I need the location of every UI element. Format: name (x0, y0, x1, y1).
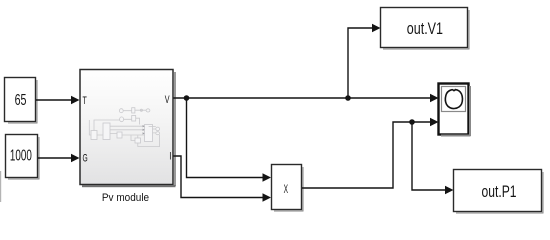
scope block (439, 84, 472, 137)
junction node on V wire (184, 95, 190, 101)
svg-text:Pv module: Pv module (102, 192, 149, 204)
product block x (272, 165, 304, 212)
outport block out.V1 (381, 8, 470, 50)
svg-text:I: I (169, 151, 171, 163)
svg-text:T: T (83, 95, 87, 107)
constant block 65 (5, 78, 38, 124)
svg-text:G: G (83, 153, 88, 165)
svg-text:V: V (165, 94, 170, 106)
constant block 1000 (6, 135, 40, 180)
subsystem Pv module (80, 70, 176, 188)
wire V to scope input 1 (174, 94, 439, 102)
outport block out.P1 (454, 170, 544, 214)
wire branch up to out.V1 (348, 24, 381, 98)
svg-text:out.P1: out.P1 (482, 182, 517, 201)
wire 65 to T (36, 96, 80, 104)
wire branch down to out.P1 (412, 122, 454, 194)
wire product output to scope input 2 (302, 118, 439, 188)
wire 1000 to G (38, 154, 80, 162)
junction node to out.V1 (345, 95, 351, 101)
wire V branch down to product input 1 (187, 98, 272, 182)
thumbnail input arrow marks (143, 125, 145, 135)
junction node on power wire (409, 119, 415, 125)
svg-text:65: 65 (15, 92, 27, 109)
left window-edge artifact (0, 171, 1, 202)
Pv module internal thumbnail (89, 108, 159, 147)
svg-text:1000: 1000 (10, 147, 32, 164)
svg-text:X: X (284, 182, 288, 196)
wire I to product input 2 (174, 156, 272, 202)
svg-text:out.V1: out.V1 (407, 19, 443, 38)
